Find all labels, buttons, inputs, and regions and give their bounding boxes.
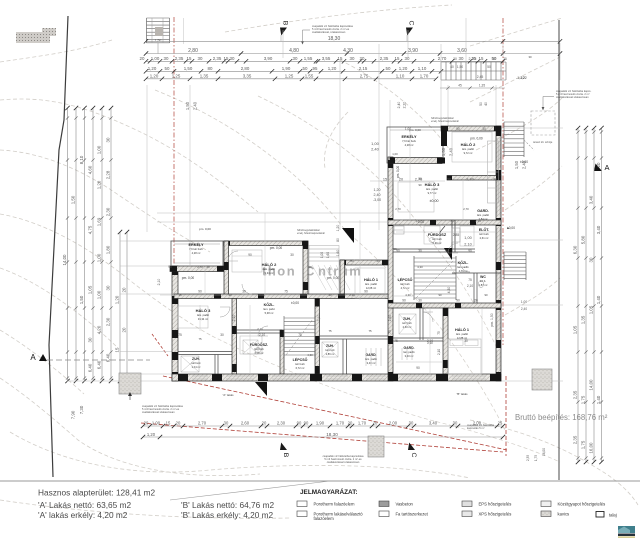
svg-text:45: 45 [458, 84, 462, 88]
svg-text:3,35: 3,35 [243, 73, 252, 78]
svg-text:csatlakozással szakaszosan: csatlakozással szakaszosan [556, 95, 589, 99]
svg-text:lam. parkt: lam. parkt [263, 307, 275, 311]
svg-text:1,00: 1,00 [151, 56, 160, 61]
svg-text:30: 30 [106, 285, 111, 290]
svg-text:pm. 0,00: pm. 0,00 [327, 276, 340, 280]
svg-text:90: 90 [297, 421, 302, 426]
svg-text:Közétgyapot hőszigetelés: Közétgyapot hőszigetelés [558, 502, 606, 507]
svg-text:30: 30 [328, 293, 332, 297]
svg-text:HÁLÓ 2: HÁLÓ 2 [262, 262, 277, 267]
svg-text:90: 90 [198, 290, 202, 294]
svg-text:20: 20 [144, 421, 149, 426]
svg-text:3,90: 3,90 [264, 56, 273, 61]
svg-text:'A' Lakás nettó: 63,65 m2: 'A' Lakás nettó: 63,65 m2 [38, 500, 131, 510]
svg-text:▲: ▲ [506, 226, 509, 230]
svg-text:1,50: 1,50 [457, 65, 463, 69]
svg-text:HÁLÓ 3: HÁLÓ 3 [196, 308, 211, 313]
svg-text:1,20: 1,20 [150, 73, 159, 78]
svg-text:15: 15 [115, 347, 120, 352]
svg-text:30: 30 [450, 219, 454, 223]
svg-text:lam. padló: lam. padló [477, 213, 490, 217]
svg-text:25: 25 [472, 56, 477, 61]
svg-text:2,10: 2,10 [232, 315, 236, 322]
svg-text:16,00: 16,00 [542, 448, 546, 456]
svg-text:HÁLÓ 3: HÁLÓ 3 [425, 182, 440, 187]
svg-text:75: 75 [444, 249, 448, 253]
svg-text:2,30: 2,30 [106, 317, 111, 326]
svg-text:2,10: 2,10 [259, 333, 265, 337]
svg-text:30: 30 [164, 56, 169, 61]
svg-text:30: 30 [88, 337, 93, 342]
svg-text:30: 30 [453, 421, 458, 426]
svg-text:90: 90 [456, 299, 460, 303]
svg-text:2,70: 2,70 [438, 56, 447, 61]
svg-text:15: 15 [166, 421, 171, 426]
svg-text:7,6 bér burk: 7,6 bér burk [402, 139, 417, 143]
svg-text:30: 30 [405, 56, 410, 61]
svg-text:4,80: 4,80 [289, 48, 299, 54]
svg-text:1,05: 1,05 [573, 325, 578, 334]
svg-text:30: 30 [290, 253, 294, 257]
svg-text:2,61 m²: 2,61 m² [480, 236, 489, 240]
svg-text:1,70: 1,70 [420, 73, 429, 78]
svg-text:2,10: 2,10 [349, 293, 355, 297]
svg-text:pm. 0,00: pm. 0,00 [396, 166, 400, 179]
svg-text:4,30: 4,30 [405, 293, 411, 297]
svg-text:'A' lakás erkély: 4,20 m2: 'A' lakás erkély: 4,20 m2 [38, 510, 128, 520]
svg-text:80: 80 [336, 238, 340, 242]
svg-text:1,60: 1,60 [388, 315, 392, 322]
svg-text:lam. padló: lam. padló [365, 282, 378, 286]
svg-text:9,72 m²: 9,72 m² [464, 151, 473, 155]
svg-text:30: 30 [106, 137, 111, 142]
svg-text:30: 30 [447, 178, 451, 182]
svg-text:2,35: 2,35 [213, 56, 222, 61]
svg-text:csatlakozással, szakaszosan: csatlakozással, szakaszosan [312, 30, 346, 34]
svg-text:30: 30 [464, 339, 468, 343]
svg-text:2,60: 2,60 [241, 421, 250, 426]
svg-text:2,35: 2,35 [526, 455, 530, 461]
svg-text:emelj. hőtető kapcsolatnál: emelj. hőtető kapcsolatnál [297, 232, 325, 235]
svg-text:lam. padló: lam. padló [462, 147, 475, 151]
svg-text:80: 80 [208, 66, 213, 71]
svg-text:1,20: 1,20 [97, 180, 102, 189]
svg-text:lam. padló: lam. padló [426, 187, 439, 191]
svg-text:4,60: 4,60 [88, 165, 93, 174]
svg-text:kél burk: kél burk [325, 348, 335, 352]
svg-text:15: 15 [338, 56, 343, 61]
svg-text:2,40: 2,40 [397, 102, 401, 109]
svg-text:1,69: 1,69 [97, 217, 102, 226]
svg-text:csatlakozással szakaszosan: csatlakozással szakaszosan [142, 410, 175, 414]
svg-text:ERKÉLY: ERKÉLY [188, 242, 204, 247]
svg-text:1,20: 1,20 [374, 188, 381, 192]
svg-text:ELŐT.: ELŐT. [479, 227, 489, 232]
svg-text:40: 40 [484, 102, 488, 106]
svg-text:1,75: 1,75 [581, 440, 586, 449]
svg-text:6,30: 6,30 [573, 245, 578, 254]
svg-text:2,40: 2,40 [374, 193, 381, 197]
svg-text:14,00: 14,00 [62, 254, 67, 266]
svg-text:4,30: 4,30 [307, 353, 313, 357]
svg-text:20: 20 [122, 327, 127, 332]
svg-text:ERKÉLY: ERKÉLY [401, 134, 417, 139]
svg-text:2,35: 2,35 [573, 435, 578, 444]
svg-text:3,60: 3,60 [457, 48, 467, 54]
svg-text:1,60: 1,60 [326, 252, 330, 258]
svg-text:7,30: 7,30 [79, 405, 84, 414]
svg-text:90: 90 [396, 249, 400, 253]
svg-text:15: 15 [178, 293, 182, 297]
svg-text:18,30: 18,30 [326, 432, 338, 437]
svg-text:30: 30 [459, 56, 464, 61]
svg-text:25: 25 [498, 421, 503, 426]
svg-text:7,90: 7,90 [71, 410, 76, 419]
svg-text:1,50: 1,50 [514, 160, 519, 169]
svg-text:3,40: 3,40 [596, 225, 601, 234]
svg-text:2,45: 2,45 [477, 75, 484, 79]
svg-text:1,75: 1,75 [534, 455, 538, 461]
svg-text:18,30: 18,30 [328, 36, 341, 42]
svg-text:2,40: 2,40 [371, 147, 380, 152]
svg-text:1,25: 1,25 [285, 73, 294, 78]
svg-text:1,00: 1,00 [97, 290, 102, 299]
svg-text:4,28 m²: 4,28 m² [192, 251, 201, 255]
svg-text:lam. padló: lam. padló [197, 313, 210, 317]
svg-text:2,10: 2,10 [157, 279, 161, 286]
svg-text:1,35: 1,35 [581, 315, 586, 324]
svg-text:30: 30 [242, 290, 246, 294]
svg-text:6,40: 6,40 [88, 363, 93, 372]
svg-text:1,90: 1,90 [316, 421, 325, 426]
svg-text:90: 90 [468, 249, 472, 253]
svg-text:B: B [282, 21, 289, 26]
svg-text:2,70: 2,70 [197, 265, 203, 269]
svg-text:2,70: 2,70 [463, 207, 469, 211]
svg-text:lam. padló: lam. padló [365, 357, 378, 361]
svg-text:90: 90 [364, 290, 368, 294]
svg-text:1,50: 1,50 [79, 295, 84, 304]
svg-text:90: 90 [416, 366, 420, 370]
svg-text:20: 20 [596, 162, 601, 167]
svg-text:2,10: 2,10 [427, 339, 433, 343]
svg-text:+0,00: +0,00 [416, 220, 424, 224]
svg-text:1,70: 1,70 [336, 421, 345, 426]
svg-text:2,35: 2,35 [175, 56, 184, 61]
svg-text:50: 50 [487, 65, 491, 69]
svg-text:50: 50 [165, 66, 170, 71]
svg-text:-1,22: -1,22 [519, 76, 526, 80]
svg-text:2,70: 2,70 [395, 207, 401, 211]
svg-text:2,80: 2,80 [241, 66, 250, 71]
svg-text:30: 30 [589, 257, 594, 262]
svg-text:GARD.: GARD. [404, 346, 415, 350]
svg-text:20: 20 [140, 56, 145, 61]
svg-text:30: 30 [376, 259, 380, 263]
svg-text:Vasbeton: Vasbeton [396, 502, 414, 507]
svg-text:1,20: 1,20 [328, 66, 337, 71]
svg-text:75: 75 [284, 290, 288, 294]
svg-text:90: 90 [456, 127, 460, 131]
svg-text:talaj: talaj [609, 513, 617, 518]
svg-text:90: 90 [248, 253, 252, 257]
svg-text:3,40: 3,40 [429, 421, 438, 426]
svg-text:1,90: 1,90 [282, 66, 291, 71]
svg-text:30: 30 [308, 265, 312, 269]
svg-text:1,35: 1,35 [479, 84, 485, 88]
svg-text:lam. padló: lam. padló [263, 267, 276, 271]
svg-text:1,00: 1,00 [320, 252, 324, 258]
svg-text:50: 50 [386, 66, 391, 71]
svg-text:2,00: 2,00 [389, 421, 398, 426]
svg-text:40: 40 [450, 65, 454, 69]
svg-text:±0,00: ±0,00 [291, 301, 299, 305]
svg-text:4,28 m²: 4,28 m² [405, 143, 414, 147]
svg-text:csatlakozással szakaszosan: csatlakozással szakaszosan [327, 460, 360, 464]
svg-text:2,70: 2,70 [466, 178, 473, 182]
svg-text:kér burk: kér burk [479, 232, 489, 236]
svg-text:20: 20 [262, 421, 267, 426]
svg-text:30: 30 [206, 265, 210, 269]
svg-text:4,72 m²: 4,72 m² [401, 286, 410, 290]
svg-text:HÁLÓ 1: HÁLÓ 1 [455, 327, 469, 332]
svg-text:90: 90 [418, 183, 422, 187]
svg-text:75: 75 [468, 278, 472, 282]
svg-text:1,05: 1,05 [88, 285, 93, 294]
svg-text:8,10: 8,10 [79, 155, 84, 164]
svg-text:3,55: 3,55 [259, 293, 265, 297]
svg-text:-3,00: -3,00 [373, 198, 381, 202]
svg-text:30: 30 [198, 56, 203, 61]
svg-text:90: 90 [484, 293, 488, 297]
svg-text:1,20: 1,20 [399, 66, 408, 71]
svg-text:50: 50 [479, 102, 483, 106]
svg-text:30: 30 [409, 421, 414, 426]
svg-text:2,35: 2,35 [380, 56, 389, 61]
svg-text:2,70: 2,70 [198, 421, 207, 426]
svg-text:1,00: 1,00 [97, 253, 102, 262]
svg-text:±0,00: ±0,00 [430, 199, 439, 203]
svg-text:B: B [282, 453, 289, 458]
svg-text:1,00: 1,00 [371, 141, 380, 146]
svg-text:20: 20 [348, 421, 353, 426]
svg-text:pm. 0,00: pm. 0,00 [270, 246, 283, 250]
svg-text:20: 20 [176, 421, 181, 426]
svg-text:kér burk: kér burk [400, 282, 410, 286]
svg-text:Hasznos alapterület: 128,41 m2: Hasznos alapterület: 128,41 m2 [38, 488, 156, 498]
svg-text:ZUH.: ZUH. [326, 344, 334, 348]
svg-text:30: 30 [493, 178, 497, 182]
svg-text:'B' Lakás erkély: 4,20 m2: 'B' Lakás erkély: 4,20 m2 [181, 510, 274, 520]
svg-text:2,30: 2,30 [277, 421, 286, 426]
svg-text:30: 30 [482, 127, 486, 131]
svg-text:6,40: 6,40 [106, 353, 111, 362]
svg-text:30: 30 [453, 57, 457, 61]
svg-text:'B' Lakás nettó: 64,76 m2: 'B' Lakás nettó: 64,76 m2 [181, 500, 274, 510]
svg-text:30: 30 [418, 177, 422, 181]
svg-text:1,55: 1,55 [305, 73, 314, 78]
svg-text:LÉPCSŐ: LÉPCSŐ [398, 277, 413, 282]
svg-text:7,6 kér burk: 7,6 kér burk [189, 247, 203, 251]
svg-text:30: 30 [220, 333, 224, 337]
svg-text:15: 15 [224, 56, 229, 61]
svg-text:5,38 m²: 5,38 m² [265, 311, 274, 315]
svg-text:HÁLÓ 1: HÁLÓ 1 [364, 277, 378, 282]
svg-text:9,34 m²: 9,34 m² [265, 271, 274, 275]
svg-text:1,00: 1,00 [521, 300, 527, 304]
svg-text:1,10: 1,10 [418, 66, 427, 71]
svg-text:1,05: 1,05 [589, 305, 594, 314]
svg-text:4,30: 4,30 [447, 287, 451, 294]
svg-text:1,70: 1,70 [358, 421, 367, 426]
svg-text:1,40: 1,40 [596, 295, 601, 304]
svg-text:15: 15 [395, 56, 400, 61]
svg-text:30: 30 [350, 56, 355, 61]
svg-text:lam. padló: lam. padló [456, 332, 469, 336]
svg-text:kér burk: kér burk [295, 362, 305, 366]
svg-text:HÁLÓ 2: HÁLÓ 2 [461, 142, 476, 147]
svg-text:30: 30 [293, 56, 298, 61]
svg-text:75: 75 [298, 333, 302, 337]
svg-text:1,20: 1,20 [336, 225, 340, 232]
svg-text:1,50: 1,50 [185, 101, 190, 110]
svg-text:4,30: 4,30 [343, 48, 353, 54]
svg-text:pm. 0,00: pm. 0,00 [470, 137, 483, 141]
svg-text:20: 20 [373, 421, 378, 426]
svg-text:3,55: 3,55 [322, 56, 331, 61]
svg-text:2,10: 2,10 [437, 349, 441, 355]
svg-text:20: 20 [122, 287, 127, 292]
svg-text:30: 30 [224, 421, 229, 426]
svg-text:A: A [30, 353, 36, 362]
svg-text:1,20: 1,20 [147, 432, 156, 437]
svg-text:kavics: kavics [558, 512, 570, 517]
svg-text:EPS hőszigetelés: EPS hőszigetelés [479, 502, 512, 507]
svg-text:75: 75 [394, 339, 398, 343]
svg-text:1,35: 1,35 [200, 73, 209, 78]
svg-text:"A" lakás: "A" lakás [222, 393, 234, 397]
svg-text:±0,00: ±0,00 [520, 160, 528, 164]
svg-text:1,00: 1,00 [152, 421, 161, 426]
svg-text:pm. 0,00: pm. 0,00 [182, 276, 195, 280]
svg-text:75: 75 [178, 333, 182, 337]
svg-text:C: C [408, 21, 415, 26]
svg-text:2,85: 2,85 [453, 233, 460, 237]
svg-text:30: 30 [418, 249, 422, 253]
svg-text:kapcsolás 5 m³: kapcsolás 5 m³ [467, 426, 485, 430]
svg-text:XPS hőszigetelés: XPS hőszigetelés [479, 512, 512, 517]
svg-text:75: 75 [368, 329, 372, 333]
svg-text:lam padló: lam padló [403, 350, 415, 354]
svg-text:JELMAGYARÁZAT:: JELMAGYARÁZAT: [300, 487, 358, 496]
svg-text:Fa tartószerkezet: Fa tartószerkezet [396, 512, 429, 517]
svg-text:terasz ült. szintje: terasz ült. szintje [533, 140, 553, 144]
svg-text:30: 30 [418, 299, 422, 303]
svg-text:KÖZL.: KÖZL. [458, 260, 469, 265]
svg-text:2,35: 2,35 [573, 390, 578, 399]
svg-text:90: 90 [304, 421, 309, 426]
svg-text:6,40: 6,40 [97, 360, 102, 369]
svg-text:1,50: 1,50 [441, 147, 446, 156]
svg-text:2,40: 2,40 [193, 101, 198, 110]
svg-text:WC: WC [480, 275, 486, 279]
svg-text:falazóelem: falazóelem [314, 516, 335, 521]
svg-text:9,77 m²: 9,77 m² [428, 191, 437, 195]
svg-text:90: 90 [228, 293, 232, 297]
svg-text:20: 20 [360, 56, 365, 61]
svg-text:15: 15 [383, 178, 387, 182]
svg-text:2,10: 2,10 [475, 219, 481, 223]
svg-text:75: 75 [388, 330, 392, 334]
svg-text:95: 95 [313, 66, 318, 71]
svg-text:50: 50 [492, 56, 497, 61]
svg-text:Porotherm falazóelem: Porotherm falazóelem [314, 502, 355, 507]
svg-text:1,20: 1,20 [148, 66, 157, 71]
svg-text:C: C [410, 453, 417, 458]
svg-text:90: 90 [168, 265, 172, 269]
svg-text:1,00: 1,00 [405, 127, 411, 131]
svg-text:kél burk: kél burk [191, 361, 201, 365]
svg-text:31,34 m²: 31,34 m² [198, 317, 208, 321]
svg-text:15: 15 [187, 56, 192, 61]
svg-text:1,50: 1,50 [155, 39, 162, 43]
svg-text:14,00: 14,00 [589, 379, 594, 391]
svg-text:2,15: 2,15 [359, 66, 368, 71]
svg-text:75: 75 [198, 337, 202, 341]
svg-text:Bruttó beépítés: 168,76 m²: Bruttó beépítés: 168,76 m² [515, 413, 608, 422]
svg-text:4,30: 4,30 [417, 265, 423, 269]
svg-text:75: 75 [328, 329, 332, 333]
svg-text:A: A [604, 163, 609, 172]
svg-text:16,00: 16,00 [589, 442, 594, 454]
svg-text:1,00: 1,00 [392, 152, 398, 156]
svg-text:90: 90 [402, 299, 406, 303]
svg-text:FÜRDŐSZ: FÜRDŐSZ [428, 232, 447, 237]
svg-text:5,80: 5,80 [581, 235, 586, 244]
svg-text:lam padló: lam padló [457, 265, 469, 269]
svg-text:30: 30 [230, 56, 235, 61]
svg-text:1,50: 1,50 [184, 66, 193, 71]
svg-text:1,80: 1,80 [106, 245, 111, 254]
svg-text:1,00: 1,00 [464, 236, 471, 240]
svg-text:2,40: 2,40 [449, 147, 454, 156]
svg-text:1,25: 1,25 [172, 73, 181, 78]
svg-text:1,60: 1,60 [336, 250, 340, 257]
svg-text:2,20: 2,20 [403, 102, 407, 109]
svg-text:pm. 0,00: pm. 0,00 [199, 227, 211, 231]
svg-text:"B" lakás: "B" lakás [456, 392, 468, 396]
svg-text:20: 20 [474, 299, 478, 303]
svg-text:2,28: 2,28 [106, 170, 111, 179]
svg-text:2,75: 2,75 [360, 73, 369, 78]
svg-text:90: 90 [350, 259, 354, 263]
svg-text:1,55: 1,55 [304, 56, 313, 61]
svg-text:3,90: 3,90 [408, 48, 418, 54]
svg-text:50: 50 [303, 66, 308, 71]
svg-text:KÖZL.: KÖZL. [264, 302, 275, 307]
svg-text:3,40: 3,40 [589, 195, 594, 204]
svg-text:6,36 m²: 6,36 m² [433, 241, 442, 245]
svg-text:kér burk: kér burk [402, 321, 412, 325]
svg-text:6,72 m²: 6,72 m² [296, 366, 305, 370]
svg-text:1,00: 1,00 [97, 145, 102, 154]
svg-text:75: 75 [437, 331, 441, 335]
svg-text:pm. 1,50: pm. 1,50 [490, 313, 494, 326]
svg-text:4,75: 4,75 [88, 225, 93, 234]
svg-text:2,80: 2,80 [188, 48, 198, 54]
svg-text:emelj. hőtető kapcsolatnál: emelj. hőtető kapcsolatnál [431, 120, 459, 123]
svg-text:GARD.: GARD. [477, 209, 489, 213]
